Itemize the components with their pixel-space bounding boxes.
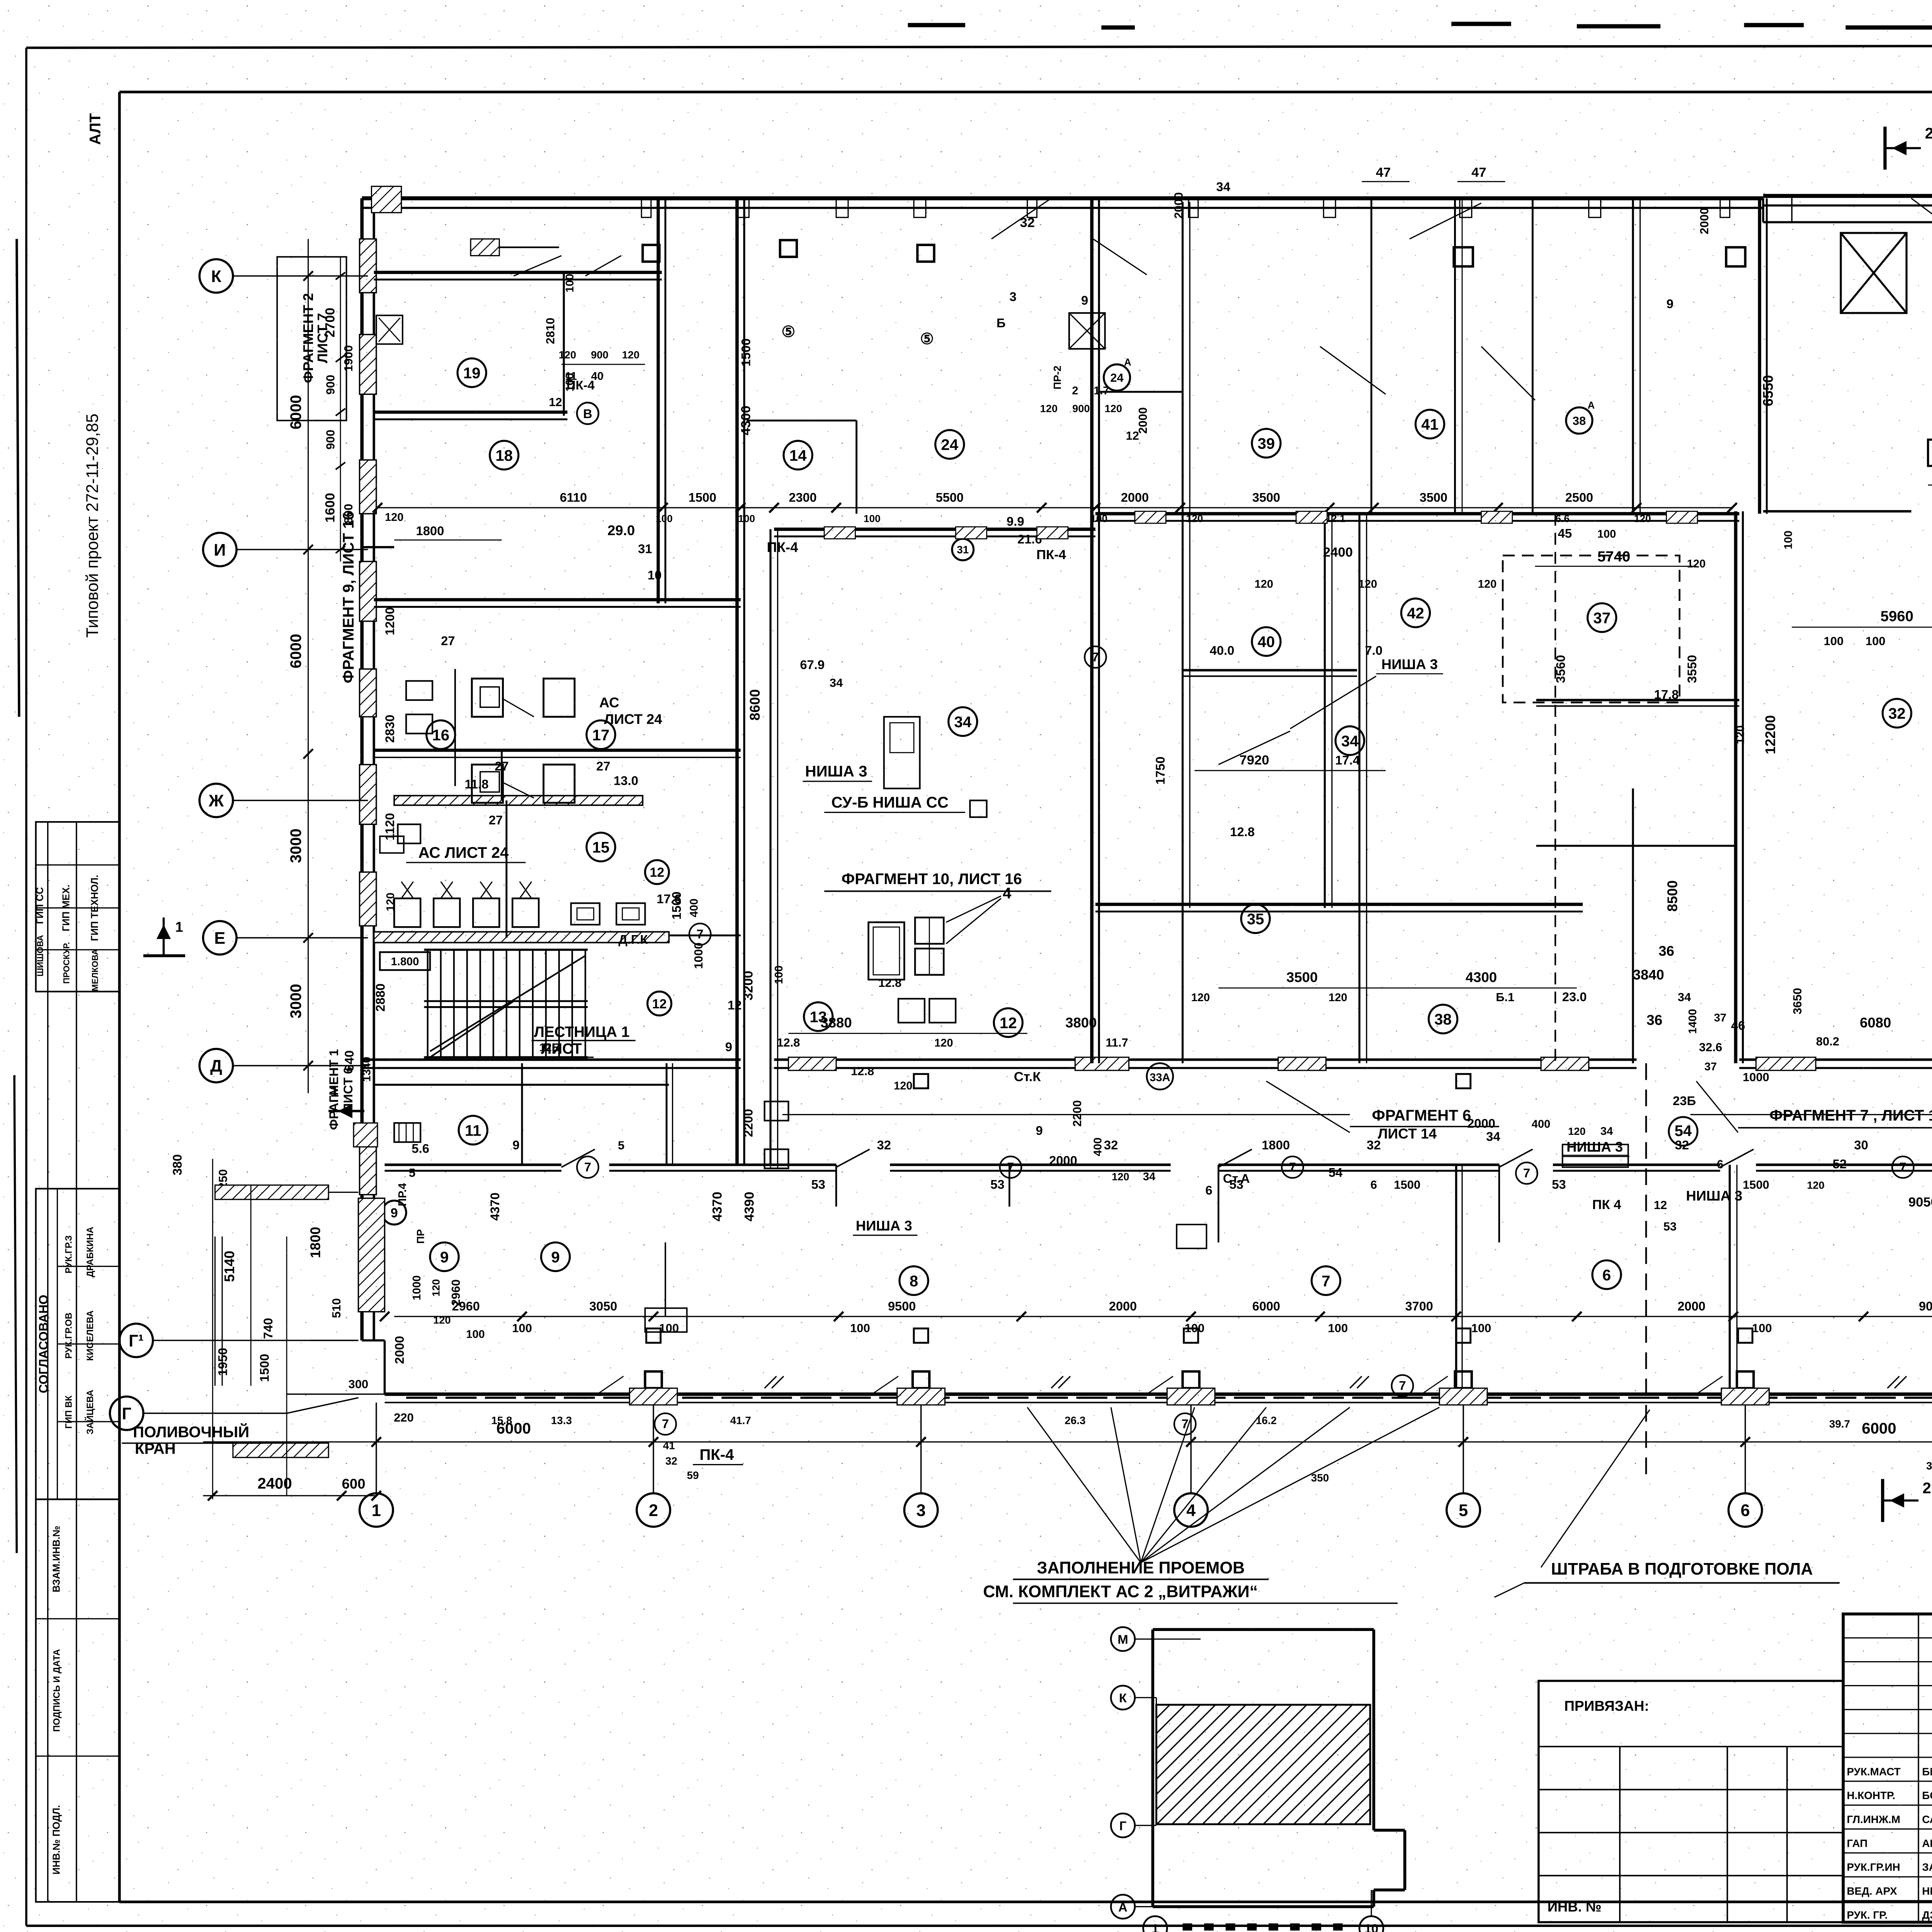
wall below room 19 y348 — [374, 412, 568, 413]
room 42 — [1401, 599, 1430, 627]
mirror boxes room 15 — [571, 903, 600, 925]
room 12b small — [648, 992, 672, 1015]
key plan outline — [1152, 1629, 1153, 1906]
wall x560 room 11 right — [666, 1063, 667, 1165]
section mark 1 bottom small — [328, 1111, 364, 1111]
leader lines to 4 — [946, 896, 1001, 922]
wall axis I left y460 stub — [362, 547, 394, 548]
toilet bottom hatched wall y785 — [374, 932, 669, 943]
exterior hatched strips bottom-left — [215, 1185, 328, 1199]
room 32 — [1883, 699, 1911, 728]
stub wall y330 room 24A — [1099, 391, 1182, 392]
hall 32 left wall x1456 — [1735, 511, 1736, 1063]
inner drawing frame — [119, 92, 1932, 92]
stair block lower partition y910 left — [374, 1084, 669, 1085]
wall y563 rooms 40-42 bottom — [1183, 670, 1357, 670]
axis D — [199, 1049, 233, 1083]
axis 4 — [1174, 1493, 1208, 1527]
vertical stub walls in bottom hall — [1009, 1165, 1010, 1206]
bottom wall x1221 — [1456, 1165, 1457, 1394]
wall x1370 lower section — [1633, 789, 1633, 1063]
dim chain top rooms y425 — [378, 507, 1732, 508]
dim lines bottom-left zone — [212, 1159, 213, 1499]
axis G1 — [119, 1324, 153, 1357]
wc pans — [480, 687, 499, 707]
staircase 1 diagonal cut — [430, 956, 585, 1051]
hatched pier lower-left entrance — [358, 1198, 384, 1312]
key plan axis 10 — [1359, 1916, 1383, 1932]
room 35 — [1241, 904, 1270, 933]
wall x1220 — [1454, 198, 1455, 514]
outer wall top — [362, 198, 1763, 199]
entrance lower-left step lines — [311, 1340, 359, 1341]
axis 3 — [904, 1493, 938, 1527]
outer wall bottom storefront — [384, 1394, 1932, 1395]
section mark 1 left — [143, 955, 185, 956]
wall y352 room 14 top — [747, 420, 856, 421]
axis 6 — [1728, 1493, 1762, 1527]
main corridor wall x620 — [736, 198, 738, 1165]
toilet top wall y631 — [374, 750, 741, 751]
axis 54 dashed circle — [1669, 1117, 1697, 1146]
wall y588 room37 area bottom — [1536, 700, 1740, 701]
room 6 — [1592, 1260, 1621, 1289]
canopy small squares — [1454, 247, 1473, 266]
leader fragment6 — [1266, 1081, 1350, 1133]
key plan axis 1 — [1143, 1916, 1167, 1932]
leader to room 34 nisha — [1290, 676, 1376, 729]
fixture cabinet room 13 — [869, 922, 905, 980]
room 7 big — [1311, 1266, 1340, 1295]
axis D main wall y890 — [362, 1059, 741, 1060]
wall x437 room 11 — [522, 1063, 522, 1165]
axis 5 — [1447, 1493, 1480, 1527]
dim chain main axes y1207 — [203, 1442, 1932, 1442]
columns mid-span bottom — [646, 1328, 661, 1343]
top edge window stubs — [641, 198, 651, 217]
dim chain left x258 — [308, 239, 309, 1093]
dim 16240 and level mark — [1928, 440, 1932, 466]
block wall x917 — [1091, 198, 1092, 1063]
privyazan table — [1539, 1681, 1843, 1922]
key plan dotted row — [1183, 1923, 1192, 1931]
room 9b — [541, 1242, 570, 1271]
outer wall bottom-left step at G1 — [362, 1340, 385, 1341]
room 40 — [1252, 627, 1281, 656]
room 24A — [1104, 364, 1130, 391]
radiator room 11 area — [765, 1102, 789, 1121]
room 9a — [430, 1242, 459, 1271]
wall axis K partition y231 — [374, 272, 662, 273]
leader lines vitrazhi — [1027, 1407, 1141, 1563]
room 31 small — [952, 539, 974, 560]
door type B circle — [577, 403, 599, 424]
axis K — [199, 259, 233, 293]
radiator marks left wall — [394, 1123, 420, 1142]
fragment 7 bracket line — [1690, 1114, 1932, 1115]
wall y708 room36 bottom — [1536, 845, 1736, 846]
axis 2 — [637, 1493, 670, 1527]
hall 53 bottom wall y430 — [1763, 511, 1911, 512]
room 35-38 divider x1140 — [1359, 514, 1360, 1063]
niche at corridor x905 y560 — [884, 717, 920, 789]
wall x422 toilets partition — [501, 750, 502, 801]
axis Zh — [199, 784, 233, 817]
section mark 2 bottom — [1882, 1479, 1883, 1522]
axis 33A circle — [1147, 1063, 1173, 1090]
leader diagonals top area — [992, 198, 1051, 239]
small squares top-left section — [643, 245, 659, 262]
room 19 — [457, 359, 486, 387]
key plan axis M — [1111, 1627, 1135, 1651]
stamp table inventory cells — [36, 1499, 119, 1902]
leader fragment7 — [1696, 1081, 1738, 1133]
columns along bottom wall — [645, 1371, 662, 1388]
sheet outer border left — [26, 48, 27, 1926]
wall x717 room 14 right — [856, 420, 857, 514]
rooms 13-12 top wall y760 — [1095, 904, 1583, 905]
shopfront partition wall y977 — [384, 1164, 561, 1165]
room 12a small — [645, 860, 669, 884]
left margin column lines — [48, 822, 48, 1902]
title block signature grid — [1843, 1638, 1932, 1638]
leader diagonals rooms 39-41 — [1320, 347, 1386, 395]
key plan axis A — [1111, 1895, 1135, 1919]
wall x1150 between rooms 39-41 — [1371, 198, 1372, 514]
second underline zapolnenie — [1013, 1603, 1398, 1604]
small stub detail near axis 2 — [665, 1242, 666, 1316]
columns along axis D — [914, 1074, 928, 1088]
wall x1370 room 38A right — [1633, 198, 1633, 514]
door swing diagonals partition — [561, 1149, 595, 1167]
toilet stall doors diagonals — [503, 699, 534, 717]
leader shtraba — [1494, 1583, 1524, 1597]
axis I — [203, 533, 237, 566]
shtraba dashed axis line x1378 — [1646, 1063, 1646, 1481]
fixture small boxes lower — [898, 999, 925, 1023]
hall 53 upper beam edge — [1763, 222, 1932, 223]
top-left entrance walls — [471, 239, 499, 255]
corridor wall x648 — [770, 529, 771, 1165]
axis 1 — [360, 1493, 393, 1527]
room 14 — [784, 441, 812, 469]
outer wall left with window piers — [361, 198, 362, 1340]
wall top rooms bottom y432 right section — [1095, 513, 1739, 514]
room 41 — [1415, 410, 1444, 438]
hatched pier segments on axis D wall — [788, 1057, 836, 1070]
room 34 left — [949, 707, 977, 736]
bottom wall x1451 — [1730, 1165, 1730, 1394]
room 15 — [587, 833, 615, 861]
section mark 2 top — [1884, 127, 1886, 170]
double line canopy bottom left — [214, 1236, 215, 1386]
fixture stack room 12-13 wall — [915, 917, 944, 944]
key plan axis G — [1111, 1813, 1135, 1837]
cleaning sink — [398, 824, 420, 843]
sheet outer border top — [26, 45, 1932, 48]
staircase 1 level box 1800 — [380, 952, 430, 970]
dashed partition room 37 — [1503, 556, 1680, 702]
room 18 — [490, 441, 519, 469]
sheet outer border bottom — [26, 1925, 1932, 1926]
top-left door arcs — [514, 256, 561, 276]
wall x1285 room 38A left — [1532, 198, 1533, 514]
scan streaks left edge — [17, 239, 19, 717]
room 11 — [459, 1116, 487, 1145]
stamp table upper names — [36, 822, 119, 992]
fragment 6 bracket line — [782, 1114, 1350, 1115]
key plan axis K — [1111, 1685, 1135, 1709]
axis G — [110, 1396, 143, 1430]
room 39 — [1252, 429, 1281, 457]
room 12 — [994, 1008, 1022, 1037]
bottom wall column piers hatched — [629, 1388, 677, 1405]
small hatched niche boxes on partition — [1563, 1145, 1628, 1167]
urinal boxes room 16 upper — [406, 681, 432, 700]
room 37 — [1588, 603, 1616, 632]
top right wall stubs — [1791, 196, 1792, 222]
hall 53 left wall x1476 — [1759, 198, 1760, 514]
dim chain left lower y1252 — [203, 1495, 376, 1496]
room 38 — [1429, 1005, 1457, 1033]
room 13 — [804, 1002, 833, 1031]
hatch marks on I-axis wall — [824, 527, 855, 539]
room 16 — [427, 720, 455, 749]
scan smudges top edge — [1451, 23, 1511, 25]
wall x993 — [1182, 202, 1183, 1063]
wall room 18 bottom y505 — [374, 599, 741, 600]
room 24 — [935, 430, 964, 459]
toilet mid hatched partition y670 — [394, 796, 643, 805]
dim chain left inner x285 — [340, 257, 341, 561]
wall x554 top-left — [658, 198, 659, 603]
dashed room 38 right x1302 — [1555, 514, 1556, 1063]
stamp table soglasovano — [36, 1189, 119, 1499]
title block outer — [1843, 1614, 1932, 1922]
canopy X box 1 — [1841, 233, 1906, 313]
wall x475 room19 right — [563, 272, 564, 416]
toilet stalls room 16-17 — [472, 679, 503, 717]
wall x1112 — [1324, 514, 1325, 908]
room 38A — [1566, 407, 1592, 434]
room 34 mid — [1335, 726, 1364, 755]
small stub near axis 4 — [1177, 1225, 1206, 1248]
misc short diagonal door swings bottom wall — [597, 1376, 624, 1394]
dim chain storefront y1102 — [394, 1316, 1932, 1317]
key plan hatched band — [1156, 1705, 1370, 1824]
room 8 — [900, 1266, 928, 1295]
door marks partition — [577, 1156, 599, 1178]
break marks storefront — [765, 1376, 777, 1388]
sink counter room 15 — [394, 898, 420, 927]
axis E — [203, 921, 237, 955]
room 24A X box — [1069, 313, 1105, 349]
staircase 1 treads — [427, 950, 428, 1057]
room 17 — [587, 720, 615, 749]
main cross wall y445 center-right — [774, 529, 1095, 530]
room 9c small — [382, 1201, 406, 1225]
